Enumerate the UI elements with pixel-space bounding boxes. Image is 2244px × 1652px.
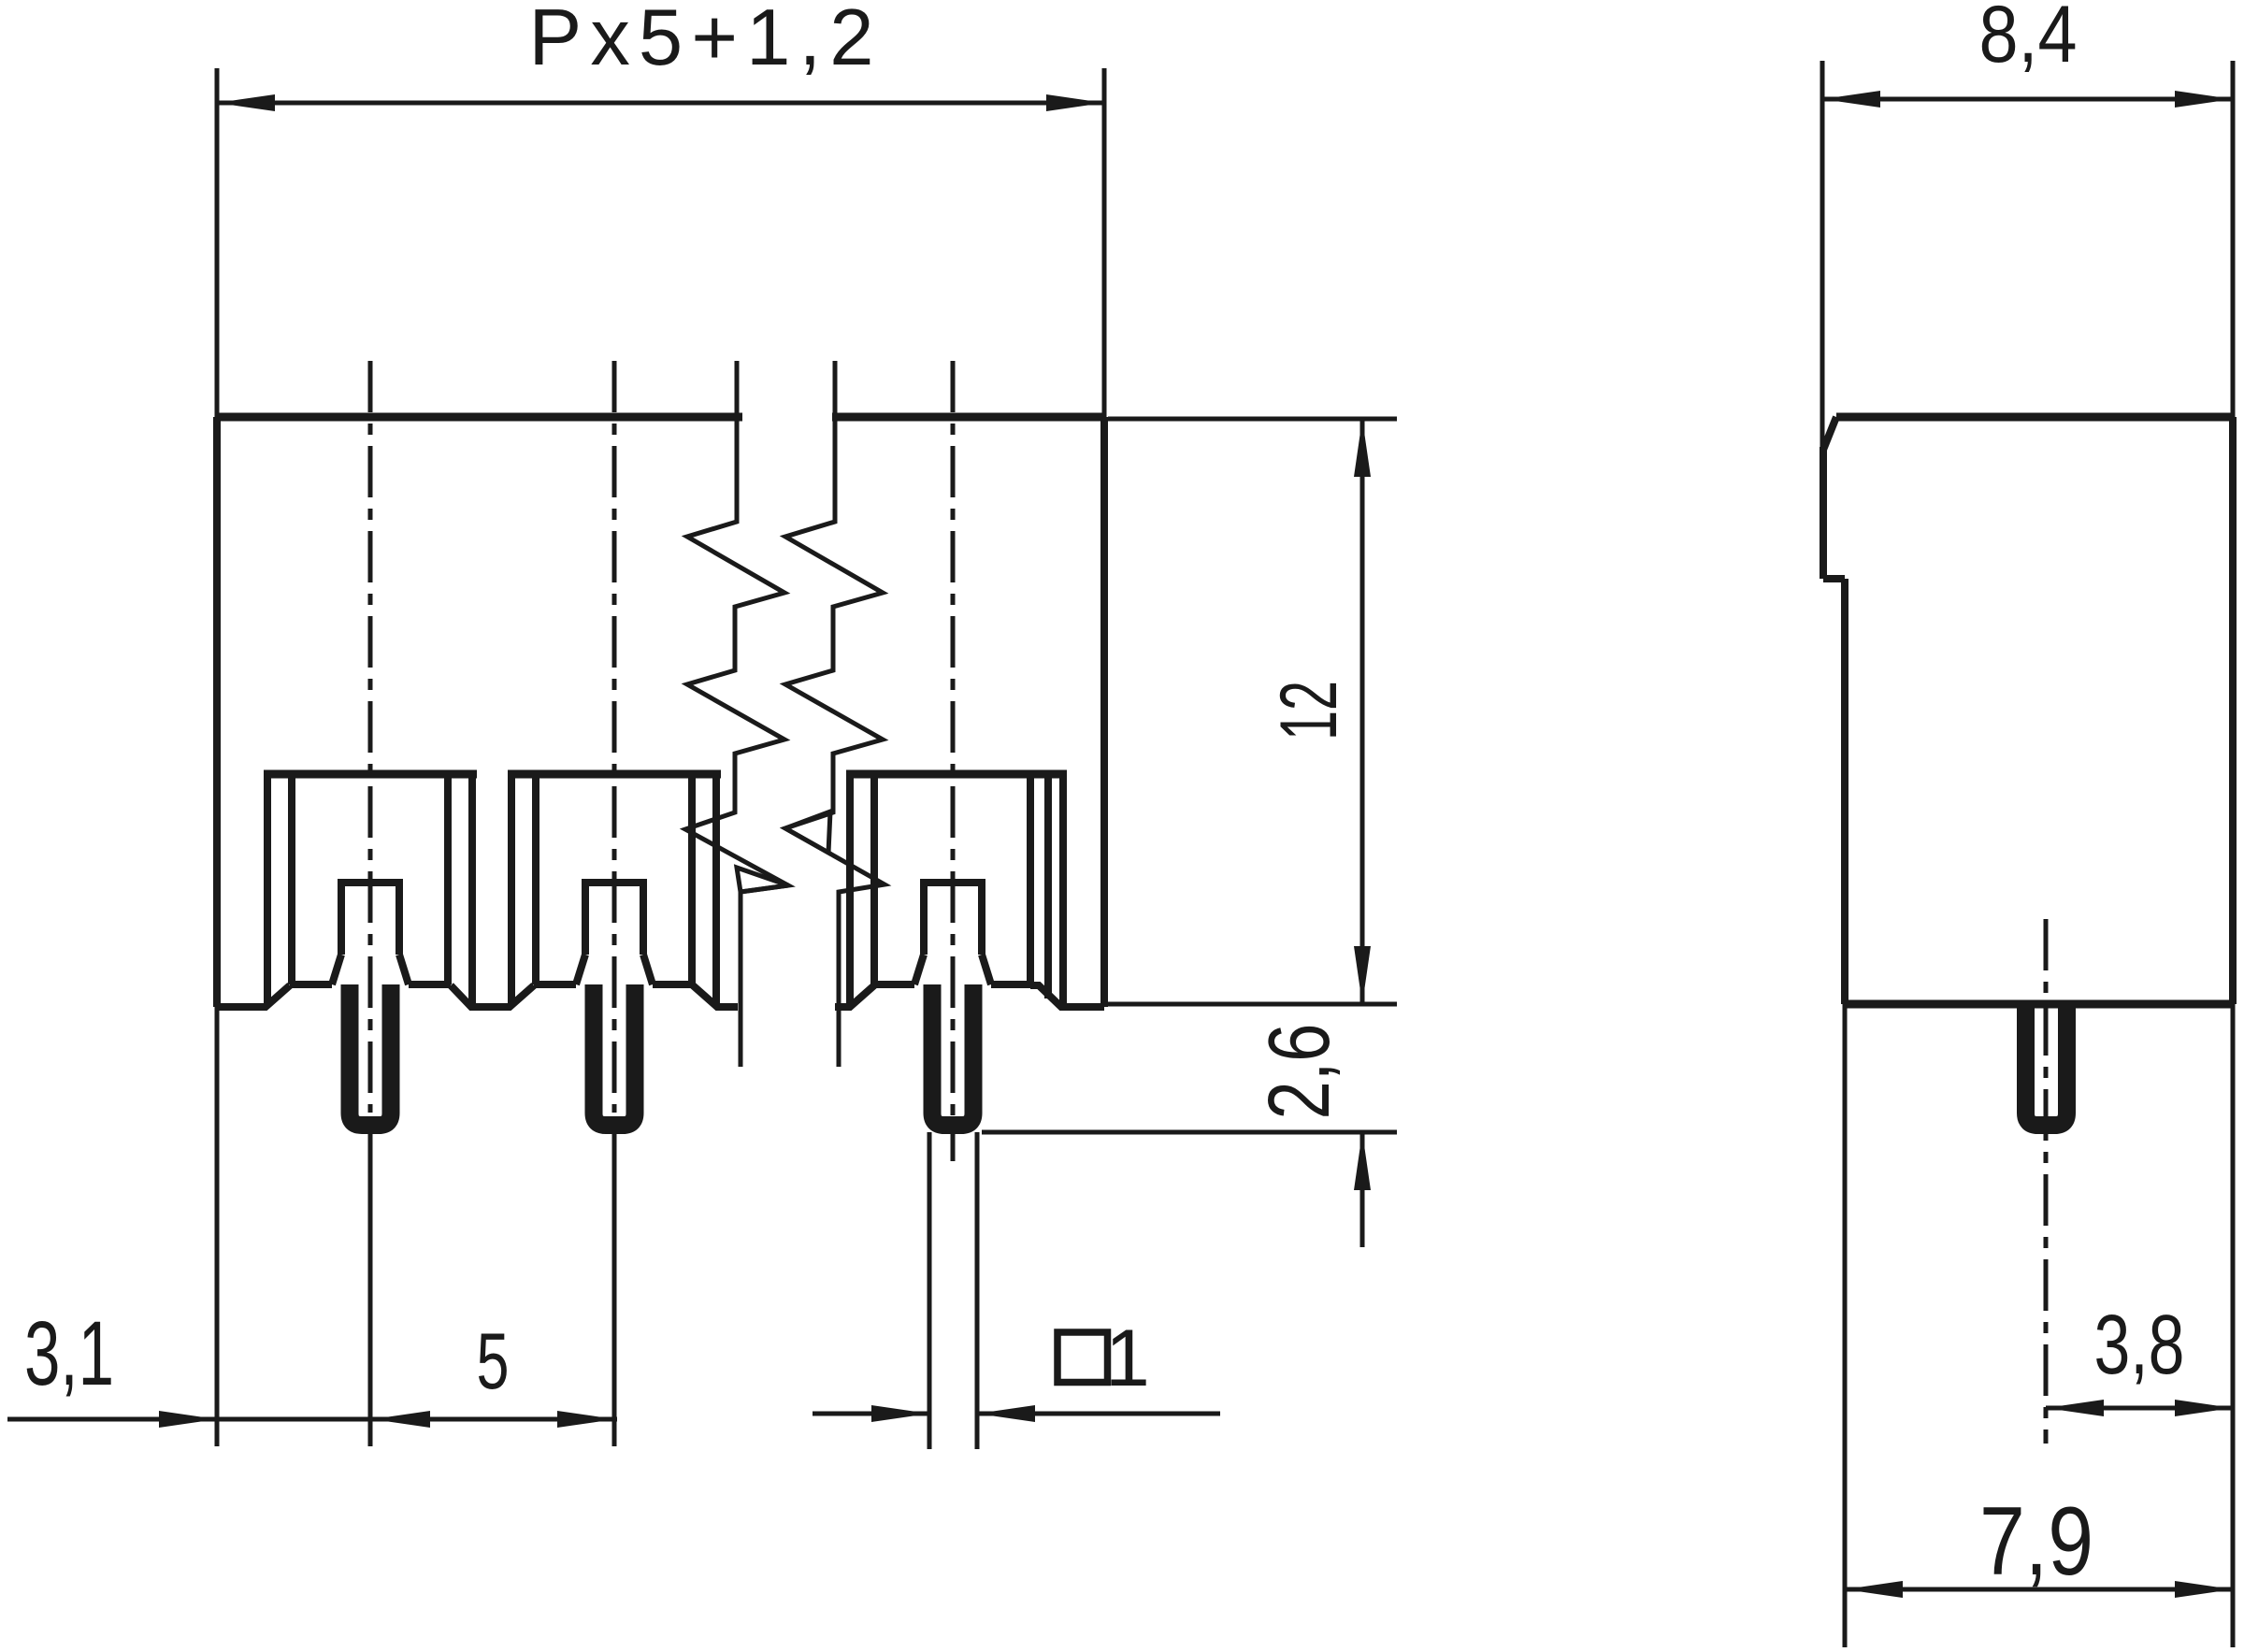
svg-text:2,6: 2,6 <box>1250 1024 1347 1120</box>
svg-text:1: 1 <box>1105 1314 1150 1403</box>
svg-text:8,4: 8,4 <box>1979 0 2078 79</box>
svg-text:3,1: 3,1 <box>24 1302 114 1404</box>
svg-text:12: 12 <box>1264 681 1354 740</box>
svg-text:7,9: 7,9 <box>1979 1487 2093 1596</box>
svg-text:5: 5 <box>477 1317 510 1406</box>
svg-text:3,8: 3,8 <box>2094 1299 2185 1392</box>
